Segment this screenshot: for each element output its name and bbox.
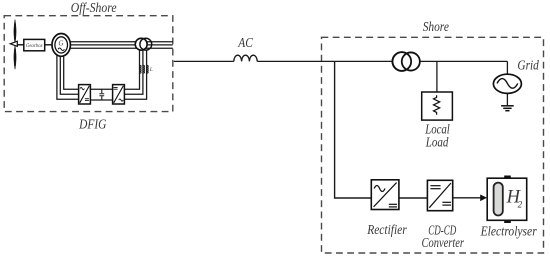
svg-text:G: G (58, 39, 63, 47)
svg-text:AC: AC (237, 36, 253, 51)
svg-text:Grid: Grid (517, 59, 539, 74)
svg-text:Load: Load (425, 136, 449, 151)
svg-text:Gearbox: Gearbox (26, 44, 44, 49)
svg-text:2: 2 (518, 199, 523, 209)
svg-text:DFIG: DFIG (78, 117, 106, 132)
svg-text:Converter: Converter (422, 236, 465, 251)
svg-text:Electrolyser: Electrolyser (480, 225, 537, 240)
svg-text:Rectifier: Rectifier (366, 223, 407, 238)
svg-text:L: L (149, 67, 153, 73)
svg-text:Off-Shore: Off-Shore (71, 1, 117, 16)
svg-text:Shore: Shore (423, 20, 449, 35)
